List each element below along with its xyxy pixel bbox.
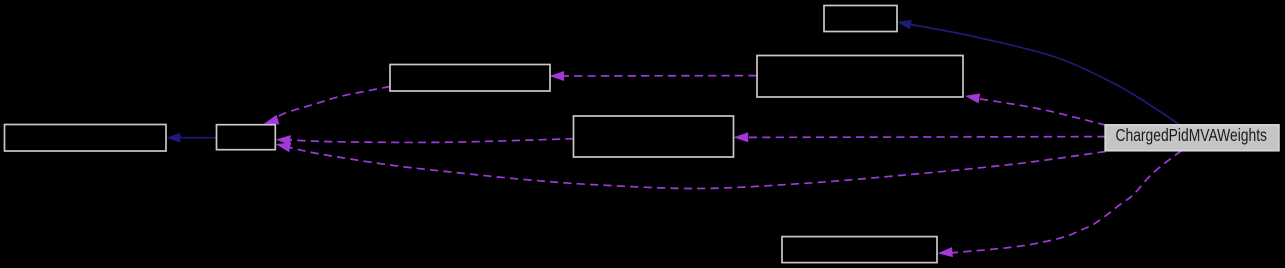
svg-text:ChargedPidMVAWeights: ChargedPidMVAWeights xyxy=(1116,125,1268,145)
